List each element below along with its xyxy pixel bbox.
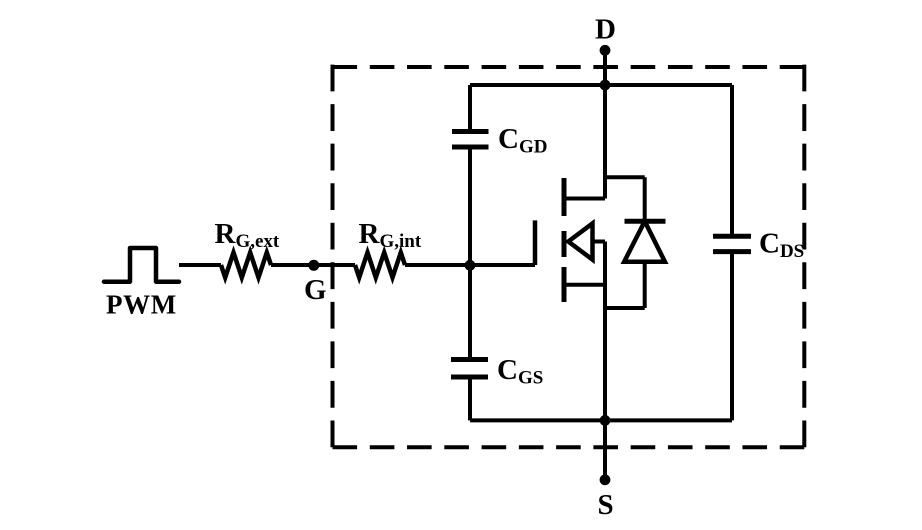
wire D terminal down to MOSFET drain (603, 50, 607, 199)
junction dot at source rail (600, 415, 611, 426)
resistor R_G,ext (221, 253, 271, 278)
MOSFET channel bar top segment (562, 178, 567, 216)
MOSFET channel bar bottom segment (562, 267, 567, 302)
MOSFET body arrow (568, 223, 592, 259)
body diode cathode bar (625, 219, 666, 224)
terminal dot D (600, 45, 611, 56)
capacitor C_GS bottom plate (451, 375, 488, 380)
body diode upper lead (643, 177, 647, 221)
MOSFET channel bar middle segment (562, 231, 567, 257)
MOSFET drain connection (564, 197, 605, 201)
capacitor C_DS upper lead (730, 85, 734, 236)
MOSFET model dashed boundary box : top edge (333, 65, 805, 69)
wire PWM to R_G,ext (179, 263, 221, 267)
bottom internal wire (source rail) (470, 418, 732, 422)
capacitor C_GS upper lead from gate node (468, 265, 472, 360)
svg-text:RG,ext: RG,ext (215, 218, 280, 252)
MOSFET model dashed boundary box : left edge (331, 65, 335, 448)
svg-text:CGS: CGS (497, 354, 543, 389)
MOSFET source connection (564, 283, 605, 287)
MOSFET model dashed boundary box : bottom edge (333, 445, 805, 449)
junction dot at drain rail (600, 80, 611, 91)
body diode anode-side top wire (605, 175, 645, 179)
capacitor C_GD top plate (452, 129, 489, 134)
body diode triangle (624, 221, 665, 261)
svg-text:S: S (598, 489, 614, 521)
svg-text:PWM: PWM (106, 290, 177, 320)
capacitor C_GS lower lead to source rail (468, 377, 472, 420)
MOSFET gate electrode stub (533, 220, 538, 265)
internal gate node junction dot (465, 260, 476, 271)
capacitor C_GS top plate (451, 357, 488, 362)
wire R_G,int to internal gate node (405, 263, 535, 267)
top internal wire (drain rail) (470, 83, 732, 87)
MOSFET model dashed boundary box : right edge (802, 65, 806, 448)
terminal dot S (600, 474, 611, 485)
wire R_G,ext to R_G,int through node G (271, 263, 355, 267)
node G junction dot (308, 260, 319, 271)
svg-text:CGD: CGD (498, 123, 547, 158)
capacitor C_GD lower lead down to gate node (468, 147, 472, 265)
capacitor C_GD bottom plate (452, 145, 489, 150)
MOSFET body connection wire (593, 240, 606, 244)
PWM pulse source symbol (104, 248, 179, 282)
capacitor C_DS bottom plate (713, 249, 751, 254)
body diode bottom wire (605, 306, 645, 310)
wire source rail to S terminal (603, 420, 607, 479)
MOSFET source lead down to source rail (603, 242, 607, 421)
capacitor C_GD upper lead (468, 85, 472, 132)
svg-text:CDS: CDS (759, 228, 804, 263)
capacitor C_DS lower lead (730, 252, 734, 421)
capacitor C_DS top plate (713, 234, 751, 239)
svg-text:D: D (595, 14, 616, 46)
svg-text:RG,int: RG,int (359, 218, 422, 252)
resistor R_G,int (355, 253, 405, 278)
svg-text:G: G (304, 274, 327, 306)
body diode lower lead (643, 262, 647, 308)
